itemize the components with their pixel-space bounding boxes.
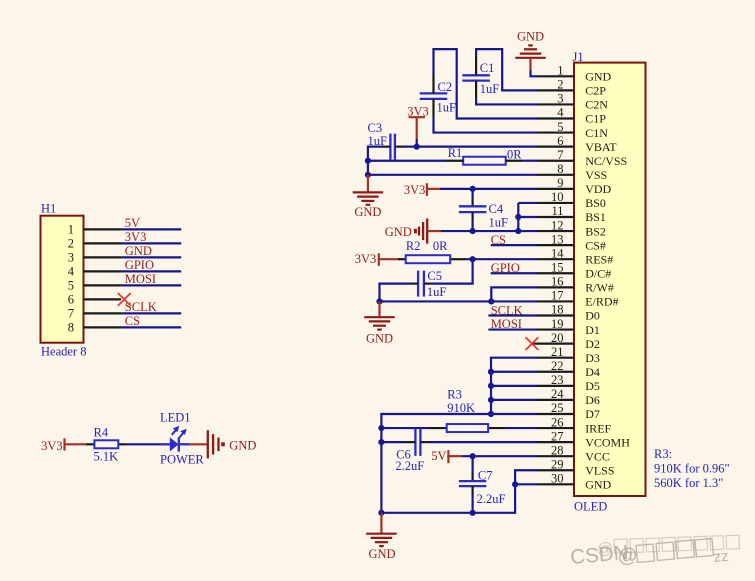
svg-text:BS0: BS0 xyxy=(585,196,606,210)
wire net CS from H1 pin 8 xyxy=(121,326,181,328)
J1 pin 4 stub xyxy=(537,117,574,119)
resistor R3 leads xyxy=(430,427,447,429)
svg-text:13: 13 xyxy=(551,232,564,246)
svg-text:E/RD#: E/RD# xyxy=(585,295,618,309)
svg-text:BS1: BS1 xyxy=(585,210,606,224)
svg-text:8: 8 xyxy=(557,162,563,176)
svg-text:3V3: 3V3 xyxy=(355,252,377,266)
wire R3 right to J1 pin 26 IREF xyxy=(505,427,537,429)
svg-text:D5: D5 xyxy=(585,379,600,393)
svg-text:Header 8: Header 8 xyxy=(41,345,86,359)
C7 top lead xyxy=(472,456,474,473)
capacitor C1 xyxy=(462,74,490,76)
wire C6 left to GND rail xyxy=(381,441,406,443)
wire J1 pin 29 VLSS down xyxy=(381,470,537,513)
svg-text:2: 2 xyxy=(557,78,563,92)
junction bottom rail/GND xyxy=(378,510,384,516)
svg-text:1uF: 1uF xyxy=(489,216,509,230)
J1 pin 15 stub xyxy=(537,272,574,274)
svg-text:VLSS: VLSS xyxy=(585,463,614,477)
svg-text:POWER: POWER xyxy=(160,453,204,467)
svg-text:26: 26 xyxy=(551,415,564,429)
no-connect X stub on J1 pin 20 D2 xyxy=(532,343,537,345)
svg-text:23: 23 xyxy=(551,373,564,387)
svg-text:MOSI: MOSI xyxy=(125,272,156,286)
svg-text:6: 6 xyxy=(68,293,74,307)
svg-text:2.2uF: 2.2uF xyxy=(395,459,424,473)
svg-text:C1: C1 xyxy=(480,61,495,75)
connector H1 body xyxy=(41,216,84,343)
wire C3 right to J1 pin 6 xyxy=(395,146,403,148)
wire net SCLK from H1 pin 7 xyxy=(121,312,181,314)
svg-text:GND: GND xyxy=(585,478,611,492)
J1 pin 22 stub xyxy=(537,371,574,373)
junction BS vertical pin11 xyxy=(515,214,521,220)
svg-text:R3: R3 xyxy=(447,387,462,401)
svg-text:5V: 5V xyxy=(125,216,140,230)
LED1 emission arrows xyxy=(172,426,187,438)
svg-text:C7: C7 xyxy=(478,469,493,483)
svg-text:9: 9 xyxy=(557,176,563,190)
J1 pin 10 stub xyxy=(537,202,574,204)
svg-text:C2N: C2N xyxy=(585,98,608,112)
svg-text:28: 28 xyxy=(551,443,564,457)
GND lead (bottom earth) xyxy=(380,513,382,534)
svg-text:2.2uF: 2.2uF xyxy=(477,492,506,506)
wire net MOSI from H1 pin 5 xyxy=(121,284,181,286)
J1 pin 5 stub xyxy=(537,131,574,133)
wire C2 to J1 pin 4 xyxy=(434,49,538,118)
wire D-tie to GND rail xyxy=(381,414,491,513)
svg-text:4: 4 xyxy=(557,106,564,120)
wire LED1 to GND xyxy=(189,443,208,445)
GND lead xyxy=(427,230,441,232)
J1 pin 1 stub xyxy=(537,75,574,77)
svg-text:24: 24 xyxy=(551,387,564,401)
J1 pin 26 stub xyxy=(537,427,574,429)
wire junction down to C5 xyxy=(431,259,473,283)
svg-text:C1N: C1N xyxy=(585,126,608,140)
svg-text:@: @ xyxy=(597,540,614,558)
svg-text:GND: GND xyxy=(368,547,395,561)
C5 leads xyxy=(424,283,431,285)
wire to pin 10 BS0 xyxy=(518,202,537,204)
H1 pin 2 xyxy=(84,242,122,244)
svg-text:GPIO: GPIO xyxy=(125,258,154,272)
svg-text:GND: GND xyxy=(585,70,611,84)
junction D-tie pin 25 xyxy=(488,411,494,417)
wire C2 to J1 pin 5 xyxy=(434,116,538,133)
wire R3 left to GND rail xyxy=(381,427,430,429)
svg-text:D/C#: D/C# xyxy=(585,266,611,280)
svg-text:GND: GND xyxy=(229,438,256,452)
svg-text:R4: R4 xyxy=(94,426,109,440)
svg-text:NC/VSS: NC/VSS xyxy=(585,154,627,168)
svg-text:7: 7 xyxy=(68,307,74,321)
junction pin16/pin17 xyxy=(488,298,494,304)
svg-text:1uF: 1uF xyxy=(427,285,447,299)
svg-text:3V3: 3V3 xyxy=(125,230,147,244)
J1 pin 17 stub xyxy=(537,300,574,302)
junction R3/GND rail xyxy=(378,425,384,431)
LED1 anode lead xyxy=(161,443,170,445)
svg-text:25: 25 xyxy=(551,401,564,415)
svg-text:1: 1 xyxy=(557,64,563,78)
wire GND to BS2 pin 12 xyxy=(441,230,537,232)
J1 pin 27 stub xyxy=(537,441,574,443)
LED1 cathode lead xyxy=(179,443,189,445)
capacitor C3 xyxy=(389,134,391,160)
wire net CS to J1 pin 13 xyxy=(491,244,537,246)
resistor R4 xyxy=(94,440,118,448)
svg-text:20: 20 xyxy=(551,331,564,345)
svg-text:3: 3 xyxy=(68,251,74,265)
C7 bottom lead xyxy=(472,486,474,494)
wire to pin 11 BS1 xyxy=(518,216,537,218)
wire J1 pin 21 D3 tie xyxy=(491,358,537,414)
wire J1 pin 22 D4 xyxy=(491,371,537,373)
svg-text:R/W#: R/W# xyxy=(585,281,614,295)
C1 bottom lead xyxy=(475,81,477,97)
svg-text:3: 3 xyxy=(557,92,563,106)
wire net GPIO from H1 pin 4 xyxy=(121,270,181,272)
svg-text:VSS: VSS xyxy=(585,168,607,182)
J1 pin 19 stub xyxy=(537,328,574,330)
resistor R2 xyxy=(406,255,451,263)
svg-text:21: 21 xyxy=(551,345,564,359)
R1 leads xyxy=(446,160,463,162)
wire GND to J1 pin 1 xyxy=(531,70,538,76)
LED1 diode symbol xyxy=(170,437,179,451)
svg-text:910K for 0.96": 910K for 0.96" xyxy=(654,461,730,475)
capacitor C4 xyxy=(459,205,487,207)
svg-text:1uF: 1uF xyxy=(437,101,457,115)
J1 pin 24 stub xyxy=(537,399,574,401)
wire net 3V3 from H1 pin 2 xyxy=(121,242,181,244)
svg-text:H1: H1 xyxy=(41,202,56,216)
J1 pin 12 stub xyxy=(537,230,574,232)
capacitor C7 xyxy=(459,480,487,482)
watermark text xyxy=(569,535,739,569)
J1 pin 13 stub xyxy=(537,244,574,246)
svg-text:17: 17 xyxy=(551,289,564,303)
svg-text:30: 30 xyxy=(551,472,564,486)
svg-text:0R: 0R xyxy=(433,239,448,253)
junction D-tie pin 23 xyxy=(488,383,494,389)
svg-text:R1: R1 xyxy=(448,146,463,160)
resistor R1 xyxy=(463,157,506,165)
ground earth symbol (bottom) xyxy=(366,533,397,535)
wire C3 left down to GND rail xyxy=(382,146,390,148)
junction D-tie pin 24 xyxy=(488,397,494,403)
J1 pin 2 stub xyxy=(537,89,574,91)
svg-text:D2: D2 xyxy=(585,337,600,351)
svg-text:C4: C4 xyxy=(489,202,504,216)
junction pin9/C4 xyxy=(470,186,476,192)
J1 pin 9 stub xyxy=(537,188,574,190)
wire R4 to LED1 xyxy=(127,443,161,445)
C1 top lead xyxy=(475,56,477,75)
svg-text:5: 5 xyxy=(557,120,563,134)
svg-text:C2: C2 xyxy=(438,80,453,94)
svg-text:LED1: LED1 xyxy=(160,411,191,425)
svg-text:11: 11 xyxy=(551,204,563,218)
svg-text:VBAT: VBAT xyxy=(585,140,617,154)
junction C4/GND wire xyxy=(470,228,476,234)
H1 pin 5 xyxy=(84,284,122,286)
svg-text:IREF: IREF xyxy=(585,421,611,435)
svg-text:R3:: R3: xyxy=(654,447,672,461)
svg-text:29: 29 xyxy=(551,457,564,471)
J1 pin 21 stub xyxy=(537,357,574,359)
J1 pin 6 stub xyxy=(537,146,574,148)
wire net GPIO to J1 pin 15 D/C# xyxy=(491,272,537,274)
svg-text:560K for 1.3": 560K for 1.3" xyxy=(654,476,723,490)
J1 pin 25 stub xyxy=(537,413,574,415)
resistor R2 leads xyxy=(398,258,406,260)
svg-text:SCLK: SCLK xyxy=(125,300,157,314)
svg-text:1: 1 xyxy=(68,223,74,237)
wire J1 pin 30 GND xyxy=(515,483,537,485)
connector J1 body xyxy=(574,63,646,496)
wire 3V3 to VBAT xyxy=(416,139,418,147)
junction 5V/C7 xyxy=(470,453,476,459)
wire R1 right to J1 pin 7 xyxy=(522,160,537,162)
GND lead (C5 earth) xyxy=(378,301,380,317)
svg-text:10: 10 xyxy=(551,190,564,204)
ground earth symbol (C3/R1) xyxy=(353,191,384,193)
C2 bottom lead xyxy=(432,99,434,116)
svg-text:CS: CS xyxy=(125,314,140,328)
svg-text:3V3: 3V3 xyxy=(404,183,426,197)
capacitor C5 xyxy=(417,271,419,297)
J1 pin 28 stub xyxy=(537,455,574,457)
svg-text:5V: 5V xyxy=(431,449,446,463)
junction C5/GND/pin17 xyxy=(376,298,382,304)
ground earth symbol (C5) xyxy=(364,316,395,318)
svg-text:4: 4 xyxy=(68,265,75,279)
svg-text:BS2: BS2 xyxy=(585,224,606,238)
wire C1 to J1 pin 2 xyxy=(476,49,537,90)
svg-text:VDD: VDD xyxy=(585,182,611,196)
wire net 5V from H1 pin 1 xyxy=(121,228,181,230)
svg-text:18: 18 xyxy=(551,303,564,317)
svg-text:2: 2 xyxy=(68,237,74,251)
wire 5V to J1 pin 28 VCC xyxy=(462,455,537,457)
svg-text:OLED: OLED xyxy=(574,500,607,514)
wire J1 pin 25 D7 xyxy=(491,413,537,415)
wire net MOSI to J1 pin 19 D1 xyxy=(488,328,537,330)
svg-text:D6: D6 xyxy=(585,393,600,407)
wire J1 pin 23 D5 xyxy=(491,385,537,387)
svg-text:RES#: RES# xyxy=(585,252,613,266)
svg-text:12: 12 xyxy=(551,218,564,232)
no-connect X on J1 pin 20 D2 xyxy=(526,337,539,350)
J1 pin 3 stub xyxy=(537,103,574,105)
J1 pin 30 stub xyxy=(537,483,574,485)
svg-text:C2P: C2P xyxy=(585,84,606,98)
J1 pin 29 stub xyxy=(537,469,574,471)
wire J1 pin 24 D6 xyxy=(491,399,537,401)
C6 leads xyxy=(406,441,415,443)
wire J1 pin 8 VSS to GND rail xyxy=(368,174,537,176)
GND lead (left earth) xyxy=(367,175,369,193)
J1 pin 8 stub xyxy=(537,174,574,176)
svg-text:5: 5 xyxy=(68,279,74,293)
H1 pin 8 xyxy=(84,326,122,328)
resistor R4 leads xyxy=(86,443,94,445)
svg-text:0R: 0R xyxy=(507,148,522,162)
svg-text:zz: zz xyxy=(713,548,729,566)
J1 pin 7 stub xyxy=(537,160,574,162)
J1 pin 11 stub xyxy=(537,216,574,218)
wire C5 left to GND xyxy=(380,284,412,302)
C2 top lead xyxy=(432,74,434,93)
svg-text:GND: GND xyxy=(385,225,412,239)
J1 pin 14 stub xyxy=(537,258,574,260)
BS tie vertical wire xyxy=(517,203,519,231)
svg-text:22: 22 xyxy=(551,359,564,373)
junction C6/GND rail xyxy=(378,439,384,445)
svg-text:5.1K: 5.1K xyxy=(94,450,119,464)
H1 pin 4 xyxy=(84,270,122,272)
svg-text:GND: GND xyxy=(354,205,381,219)
C4 top lead xyxy=(472,189,474,199)
svg-text:D7: D7 xyxy=(585,407,600,421)
junction C7/bottom rail xyxy=(470,510,476,516)
H1 pin 6 xyxy=(84,298,122,300)
svg-text:GND: GND xyxy=(366,332,393,346)
junction R1/GND rail xyxy=(365,158,371,164)
junction pin6/3V3/C3 xyxy=(414,144,420,150)
wire R1 left to GND rail xyxy=(368,160,446,162)
junction D-tie pin 22 xyxy=(488,369,494,375)
svg-text:19: 19 xyxy=(551,317,564,331)
svg-text:7: 7 xyxy=(557,148,563,162)
no-connect X on H1 pin 6 xyxy=(118,293,131,306)
svg-text:C5: C5 xyxy=(427,269,442,283)
svg-text:3V3: 3V3 xyxy=(41,439,63,453)
svg-text:C1P: C1P xyxy=(585,112,606,126)
wire net GND from H1 pin 3 xyxy=(121,256,181,258)
svg-text:D0: D0 xyxy=(585,309,600,323)
H1 pin 1 xyxy=(84,228,122,230)
svg-text:D1: D1 xyxy=(585,323,600,337)
wire 3V3 to J1 pin 9 VDD xyxy=(440,188,537,190)
svg-text:15: 15 xyxy=(551,260,564,274)
wire J1 pin 17 E/RD# to GND xyxy=(380,300,538,302)
J1 pin 16 stub xyxy=(537,286,574,288)
C4 bottom lead xyxy=(472,212,474,219)
J1 pin 20 stub xyxy=(537,343,574,345)
svg-text:CS#: CS# xyxy=(585,238,606,252)
svg-text:GND: GND xyxy=(517,29,544,43)
wire R2 to J1 pin 14 RES# xyxy=(466,258,537,260)
junction VSS/GND xyxy=(365,172,371,178)
J1 pin 18 stub xyxy=(537,314,574,316)
wire C6 right to J1 pin 27 VCOMH xyxy=(429,441,537,443)
capacitor C6 xyxy=(414,428,416,456)
junction R2/C5 xyxy=(470,256,476,262)
svg-text:R2: R2 xyxy=(406,239,421,253)
capacitor C2 xyxy=(420,92,448,94)
svg-text:14: 14 xyxy=(551,246,564,260)
svg-text:1uF: 1uF xyxy=(480,82,500,96)
junction BS vertical pin12 xyxy=(515,228,521,234)
svg-text:16: 16 xyxy=(551,275,564,289)
junction pin30/vertical xyxy=(512,481,518,487)
H1 pin 3 xyxy=(84,256,122,258)
svg-text:C3: C3 xyxy=(368,121,383,135)
wire J1 pin 16 R/W# tie xyxy=(491,287,537,301)
svg-text:VCOMH: VCOMH xyxy=(585,435,630,449)
svg-text:D4: D4 xyxy=(585,365,600,379)
svg-text:GND: GND xyxy=(125,244,152,258)
ground bars symbol (LED) xyxy=(207,430,209,458)
svg-text:D3: D3 xyxy=(585,351,600,365)
svg-text:8: 8 xyxy=(68,321,74,335)
wire net SCLK to J1 pin 18 D0 xyxy=(488,314,537,316)
svg-text:6: 6 xyxy=(557,134,563,148)
svg-text:910K: 910K xyxy=(447,401,475,415)
resistor R3 xyxy=(447,424,488,432)
wire C1 to J1 pin 3 xyxy=(476,97,537,104)
H1 pin 7 xyxy=(84,312,122,314)
svg-text:VCC: VCC xyxy=(585,449,610,463)
J1 pin 23 stub xyxy=(537,385,574,387)
svg-text:27: 27 xyxy=(551,429,564,443)
